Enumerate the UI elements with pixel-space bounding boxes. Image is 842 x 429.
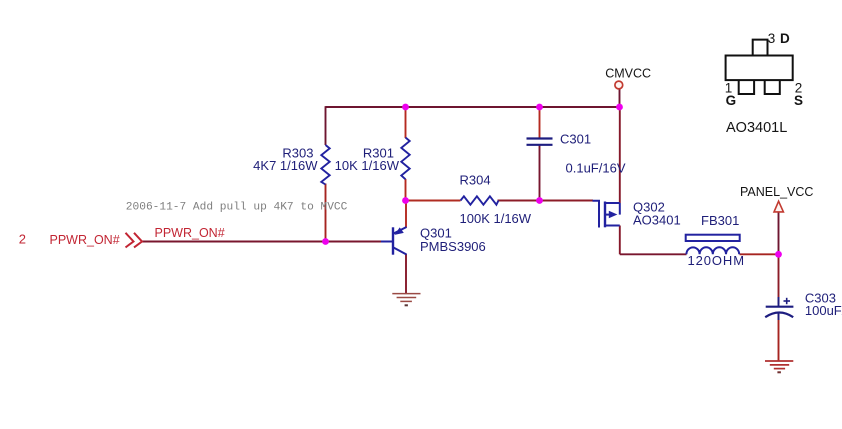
svg-text:AO3401L: AO3401L [726,120,787,136]
wire R303 bottom lead [325,184,327,242]
package outline AO3401L body [726,56,793,81]
svg-text:100uF/16V: 100uF/16V [805,303,842,318]
mosfet Q302 [593,201,620,228]
wire R301 bottom lead [405,179,407,201]
junction CMVCC [616,104,623,111]
svg-text:PPWR_ON#: PPWR_ON# [155,226,225,240]
wire PPWR_ON# base wire [142,241,382,243]
wire C303 bottom lead [778,314,780,361]
port chevron PPWR_ON# [126,233,143,248]
wire Q301 emitter vertical [405,201,407,228]
wire Q302 source vertical [619,226,621,255]
svg-text:4K7 1/16W: 4K7 1/16W [253,158,318,173]
junction base R303 [322,238,329,245]
svg-text:CMVCC: CMVCC [605,67,651,81]
package pin 2 tab [765,80,780,94]
wire FB301 right lead [740,253,779,255]
wire to FB301 [620,253,687,255]
svg-text:2: 2 [19,231,26,246]
wire Q302 drain vertical [619,107,621,203]
resistor R304 [461,196,499,204]
wire top rail [326,106,620,108]
junction R301 R304 emitter [402,197,409,204]
svg-text:PMBS3906: PMBS3906 [420,239,486,254]
svg-text:10K 1/16W: 10K 1/16W [335,158,400,173]
svg-text:2006-11-7 Add pull up 4K7 to M: 2006-11-7 Add pull up 4K7 to MVCC [126,202,348,214]
svg-text:3: 3 [768,31,776,46]
svg-text:PANEL_VCC: PANEL_VCC [740,185,813,199]
capacitor C303 [765,297,793,320]
wire PANEL_VCC stub [778,212,780,254]
svg-text:PPWR_ON#: PPWR_ON# [50,233,120,247]
wire CMVCC stub [619,89,621,107]
svg-text:0.1uF/16V: 0.1uF/16V [566,161,626,176]
svg-text:R304: R304 [460,173,491,188]
wire C301 top lead [539,107,541,138]
wire R301 top lead [405,107,407,138]
svg-text:AO3401: AO3401 [633,213,681,228]
svg-text:G: G [726,93,737,108]
resistor R303 [321,145,329,185]
svg-text:C301: C301 [560,132,591,147]
transistor Q301 [381,227,407,255]
junction top C301 [536,104,543,111]
package pin 3 tab [753,40,768,56]
junction top R301 [402,104,409,111]
wire left rail to R303 top [325,106,327,145]
capacitor C301 [527,139,553,145]
package pin 1 tab [739,80,754,94]
ground C303 [765,361,793,372]
wire Q302 gate wire [540,200,594,202]
wire Q301 collector vertical [405,254,407,294]
resistor R301 [401,138,409,180]
wire C301 bottom lead [539,146,541,201]
ferrite bead FB301 [686,235,740,255]
power symbol CMVCC circle [615,81,623,89]
C303 plus sign [784,298,791,304]
power symbol PANEL_VCC triangle [774,201,783,212]
wire R304 right lead [498,200,540,202]
svg-text:D: D [780,31,790,46]
svg-text:100K 1/16W: 100K 1/16W [460,211,532,226]
wire R304 left lead [406,200,461,202]
svg-text:120OHM: 120OHM [688,253,745,268]
svg-text:FB301: FB301 [701,213,739,228]
svg-text:S: S [794,93,803,108]
wire C303 top lead [778,254,780,304]
junction R304 C301 gate [536,197,543,204]
junction PANEL_VCC [775,251,782,258]
ground Q301 [392,294,420,306]
